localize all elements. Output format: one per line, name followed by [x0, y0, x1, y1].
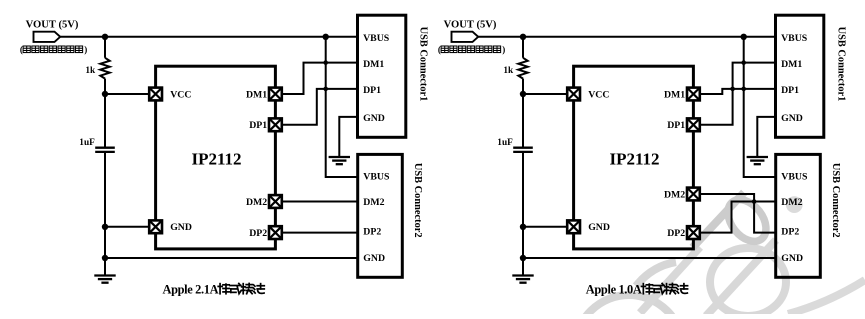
junction VBUS/connector feed — [323, 34, 329, 40]
VOUT source flag — [452, 32, 479, 42]
svg-text:IP2112: IP2112 — [609, 149, 659, 168]
wire C1 to GND node — [522, 152, 524, 227]
svg-text:GND: GND — [363, 253, 385, 264]
U1 pin VCC — [149, 88, 162, 101]
svg-text:DP2: DP2 — [249, 228, 267, 239]
svg-text:Apple 2.1A: Apple 2.1A — [163, 282, 219, 296]
wire U1 DM2 to Connector2 DP2 — [699, 194, 775, 233]
svg-text:USB Connector1: USB Connector1 — [418, 27, 429, 102]
wire U1 DP1 to Connector1 DP1 — [281, 89, 357, 125]
svg-text:DP2: DP2 — [363, 226, 381, 237]
ground (Connector1) — [747, 157, 768, 164]
wire U1 DP2 to Connector2 DM2 — [699, 202, 775, 233]
svg-text:DM1: DM1 — [664, 89, 685, 100]
svg-text:(: ( — [438, 45, 441, 55]
right circuit: Apple 1.0A mode — [438, 15, 847, 296]
U1 pin DM2 — [687, 188, 700, 201]
junction VBUS/DM1 crossing — [741, 60, 746, 65]
svg-text:DP1: DP1 — [781, 85, 799, 96]
op IC U1 IP2112 body — [156, 66, 276, 249]
junction VBUS/connector feed — [741, 34, 747, 40]
svg-text:DP2: DP2 — [667, 228, 685, 239]
wire VBUS to R1 — [104, 37, 106, 58]
svg-text:DP2: DP2 — [781, 226, 799, 237]
svg-text:): ) — [502, 45, 505, 55]
wire GND node to ground rail — [104, 227, 106, 258]
wire VCC node to U1 VCC pin — [105, 93, 149, 95]
svg-text:USB Connector2: USB Connector2 — [830, 163, 841, 238]
junction DP1 riser crossing — [730, 87, 735, 92]
svg-text:DM2: DM2 — [363, 197, 384, 208]
wire R1 to VCC node — [104, 79, 106, 94]
junction VCC node — [102, 91, 108, 97]
resistor R1 1k — [100, 58, 109, 79]
capacitor C1 1uF — [95, 148, 115, 152]
wire VCC node to U1 VCC pin — [523, 93, 567, 95]
U1 pin DP1 — [269, 118, 282, 131]
svg-text:USB Connector2: USB Connector2 — [412, 163, 423, 238]
svg-text:1k: 1k — [85, 66, 96, 76]
USB Connector1 body — [358, 15, 406, 137]
svg-text:DM2: DM2 — [781, 197, 802, 208]
wire to ground symbol — [104, 258, 106, 276]
svg-text:GND: GND — [781, 253, 803, 264]
svg-text:IP2112: IP2112 — [191, 149, 241, 168]
capacitor C1 1uF — [513, 148, 533, 152]
svg-text:VOUT (5V): VOUT (5V) — [444, 20, 497, 31]
wire ground rail to USB Connector2 GND — [523, 257, 776, 259]
junction VBUS/DP1 crossing — [741, 87, 746, 92]
U1 pin DM1 — [269, 88, 282, 101]
ground (power ground) — [512, 276, 533, 283]
wire VCC node to C1 — [104, 94, 106, 147]
U1 pin VCC — [567, 88, 580, 101]
U1 pin DP2 — [687, 226, 700, 239]
resistor R1 1k — [518, 58, 527, 79]
wire Connector1 GND — [757, 117, 775, 157]
junction ground rail — [520, 255, 526, 261]
wire Connector1 GND — [339, 117, 357, 157]
wire U1 DP1 to Connector1 DM1 — [699, 63, 775, 125]
wire VBUS rail (VOUT to USB Connector1 VBUS) — [478, 36, 775, 38]
svg-text:1uF: 1uF — [79, 138, 95, 148]
junction DP1/VBUS crossing — [323, 87, 328, 92]
svg-text:DM2: DM2 — [664, 189, 685, 200]
svg-text:VBUS: VBUS — [781, 171, 808, 182]
svg-text:1k: 1k — [503, 66, 514, 76]
svg-text:GND: GND — [363, 113, 385, 124]
wire VBUS to Connector2 VBUS — [326, 37, 358, 177]
svg-text:GND: GND — [170, 222, 192, 233]
svg-text:VOUT (5V): VOUT (5V) — [26, 20, 79, 31]
wire VBUS rail (VOUT to USB Connector1 VBUS) — [60, 36, 357, 38]
svg-text:VBUS: VBUS — [363, 33, 390, 44]
U1 pin DM1 — [687, 88, 700, 101]
svg-text:Apple 1.0A: Apple 1.0A — [586, 282, 642, 296]
wire U1 DM2 to Connector2 DM2 — [281, 201, 357, 203]
USB Connector2 body — [776, 154, 821, 277]
svg-text:DP1: DP1 — [363, 85, 381, 96]
svg-text:DM1: DM1 — [363, 59, 384, 70]
U1 pin GND — [567, 220, 580, 233]
svg-text:USB Connector1: USB Connector1 — [836, 27, 847, 102]
svg-text:DP1: DP1 — [249, 120, 267, 131]
USB Connector1 body — [776, 15, 824, 137]
U1 pin DP2 — [269, 226, 282, 239]
wire U1 DM1 to Connector1 DM1 — [281, 63, 357, 94]
ground (power ground) — [94, 276, 115, 283]
wire GND node to U1 GND pin — [523, 226, 567, 228]
watermark — [575, 192, 865, 319]
junction VOUT/R1 — [102, 34, 108, 40]
wire VBUS to Connector2 VBUS — [744, 37, 776, 177]
junction GND node — [102, 224, 108, 230]
svg-text:VBUS: VBUS — [781, 33, 808, 44]
wire GND node to U1 GND pin — [105, 226, 149, 228]
svg-text:VBUS: VBUS — [363, 171, 390, 182]
junction GND node — [520, 224, 526, 230]
svg-text:(: ( — [20, 45, 23, 55]
wire R1 to VCC node — [522, 79, 524, 94]
junction VOUT/R1 — [520, 34, 526, 40]
junction DM1/VBUS crossing — [323, 60, 328, 65]
U1 pin DM2 — [269, 195, 282, 208]
junction ground rail — [102, 255, 108, 261]
U1 pin GND — [149, 220, 162, 233]
wire GND node to ground rail — [522, 227, 524, 258]
svg-text:VCC: VCC — [588, 89, 609, 100]
svg-text:GND: GND — [588, 222, 610, 233]
wire U1 DM1 to Connector1 DP1 — [699, 89, 775, 94]
svg-text:DM2: DM2 — [246, 197, 267, 208]
op IC U1 IP2112 body — [574, 66, 694, 249]
wire VCC node to C1 — [522, 94, 524, 147]
svg-text:1uF: 1uF — [497, 138, 513, 148]
svg-text:DP1: DP1 — [667, 120, 685, 131]
wire to ground symbol — [522, 258, 524, 276]
svg-text:DM1: DM1 — [246, 89, 267, 100]
svg-text:GND: GND — [781, 113, 803, 124]
svg-text:): ) — [84, 45, 87, 55]
svg-text:DM1: DM1 — [781, 59, 802, 70]
wire VBUS to R1 — [522, 37, 524, 58]
wire C1 to GND node — [104, 152, 106, 227]
wire ground rail to USB Connector2 GND — [105, 257, 358, 259]
U1 pin DP1 — [687, 118, 700, 131]
USB Connector2 body — [358, 154, 403, 277]
VOUT source flag — [34, 32, 61, 42]
junction DM2/DP2 crossing — [752, 199, 757, 204]
junction VCC node — [520, 91, 526, 97]
left circuit: Apple 2.1A mode — [20, 15, 429, 296]
ground (Connector1) — [329, 157, 350, 164]
svg-text:VCC: VCC — [170, 89, 191, 100]
wire U1 DP2 to Connector2 DP2 — [281, 232, 357, 234]
